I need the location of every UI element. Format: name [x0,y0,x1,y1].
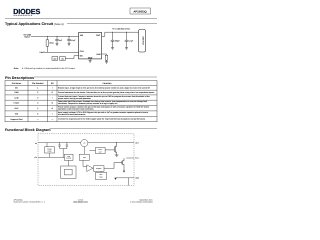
svg-text:CS: CS [83,143,85,145]
svg-text:DIODES: DIODES [13,7,40,16]
svg-text:Fault: Fault [40,51,45,54]
svg-text:3: 3 [37,96,38,99]
svg-text:Document number: DS44218 Rev.: Document number: DS44218 Rev. 4 - 2 [14,201,45,204]
svg-text:4: 4 [37,102,39,105]
svg-text:operation under transient load: operation under transient load condition… [58,108,95,111]
svg-text:10kΩ: 10kΩ [49,42,54,45]
svg-text:OTP: OTP [99,151,102,153]
svg-text:ILIM: ILIM [83,157,87,159]
svg-text:OUT: OUT [96,34,101,37]
svg-text:© 2021 Diodes Incorporated: © 2021 Diodes Incorporated [130,201,153,204]
svg-text:EN: EN [80,54,83,57]
svg-text:0.1µF: 0.1µF [129,40,135,43]
svg-text:1: 1 [37,87,38,90]
svg-text:the device for best performanc: the device for best performance. [58,113,86,116]
svg-text:I: I [52,96,53,99]
svg-text:150µF: 150µF [115,40,121,43]
svg-text:0.1µF: 0.1µF [71,39,77,42]
svg-text:Pin Number: Pin Number [32,82,44,85]
svg-text:ON: ON [61,57,64,60]
svg-text:www.diodes.com: www.diodes.com [73,201,88,204]
svg-text:GND: GND [135,177,140,180]
svg-text:2: 2 [37,91,38,94]
svg-text:IN: IN [35,142,37,145]
svg-text:6: 6 [37,112,38,115]
svg-text:Control: Control [66,158,71,160]
svg-text:FLG: FLG [80,50,84,53]
svg-text:Pin Descriptions: Pin Descriptions [5,76,34,80]
svg-text:5: 5 [37,107,38,110]
svg-text:Typical Applications Circuit (: Typical Applications Circuit (Note 4) [5,22,64,26]
svg-text:FAULT: FAULT [14,102,21,105]
svg-text:ILIM: ILIM [96,53,100,56]
svg-text:Ground reference for the devic: Ground reference for the device. Connect… [58,91,155,94]
svg-text:I: I [52,112,53,115]
svg-text:conditions. Requires an extern: conditions. Requires an external pull-up… [58,102,118,105]
svg-text:EN: EN [15,87,18,90]
svg-text:Charge: Charge [47,149,52,151]
svg-text:Exposed Pad: Exposed Pad [11,118,24,121]
svg-text:—: — [37,119,39,121]
svg-text:O: O [52,102,54,105]
svg-text:Deglitch: Deglitch [96,168,101,170]
svg-text:Function: Function [103,82,113,85]
svg-text:OFF: OFF [53,57,56,60]
svg-text:ILIM: ILIM [15,96,19,99]
svg-text:AP22653Q: AP22653Q [133,10,146,13]
svg-text:Gate: Gate [67,156,70,158]
svg-text:VIN: VIN [80,34,84,37]
svg-text:8ms: 8ms [100,174,103,176]
svg-text:FLG: FLG [135,157,139,160]
svg-text:Enable input. A logic high on: Enable input. A logic high on this pin t… [58,87,151,90]
svg-text:Timer: Timer [99,176,103,178]
svg-text:Functional Block Diagram: Functional Block Diagram [5,128,51,132]
svg-text:Connect the exposed pad to the: Connect the exposed pad to the GND coppe… [58,118,146,121]
svg-text:Note:: Note: [14,67,19,70]
svg-text:I/O: I/O [51,82,54,85]
svg-text:USB Port: USB Port [142,36,145,45]
svg-text:Pump: Pump [48,151,52,153]
svg-text:OUT: OUT [15,107,20,110]
svg-text:power switch during normal ope: power switch during normal operation. [58,97,92,100]
svg-text:1µF: 1µF [59,39,63,42]
svg-text:—: — [51,119,53,121]
svg-text:GND: GND [88,56,93,59]
svg-text:I: I [52,87,53,90]
svg-text:EN: EN [34,156,37,159]
svg-text:4. 10kΩ pull-up resistor is re: 4. 10kΩ pull-up resistor is recommended … [22,67,76,70]
svg-text:G: G [52,91,54,94]
svg-text:Input: Input [24,35,29,38]
svg-text:VIN: VIN [15,112,19,115]
svg-text:GND: GND [14,91,19,94]
svg-text:O: O [52,107,54,110]
svg-text:UVLO: UVLO [98,149,102,151]
svg-text:Pin Name: Pin Name [12,82,22,85]
svg-text:+5 V USB Rail (+5V): +5 V USB Rail (+5V) [112,28,130,31]
svg-text:OUT: OUT [135,141,140,144]
